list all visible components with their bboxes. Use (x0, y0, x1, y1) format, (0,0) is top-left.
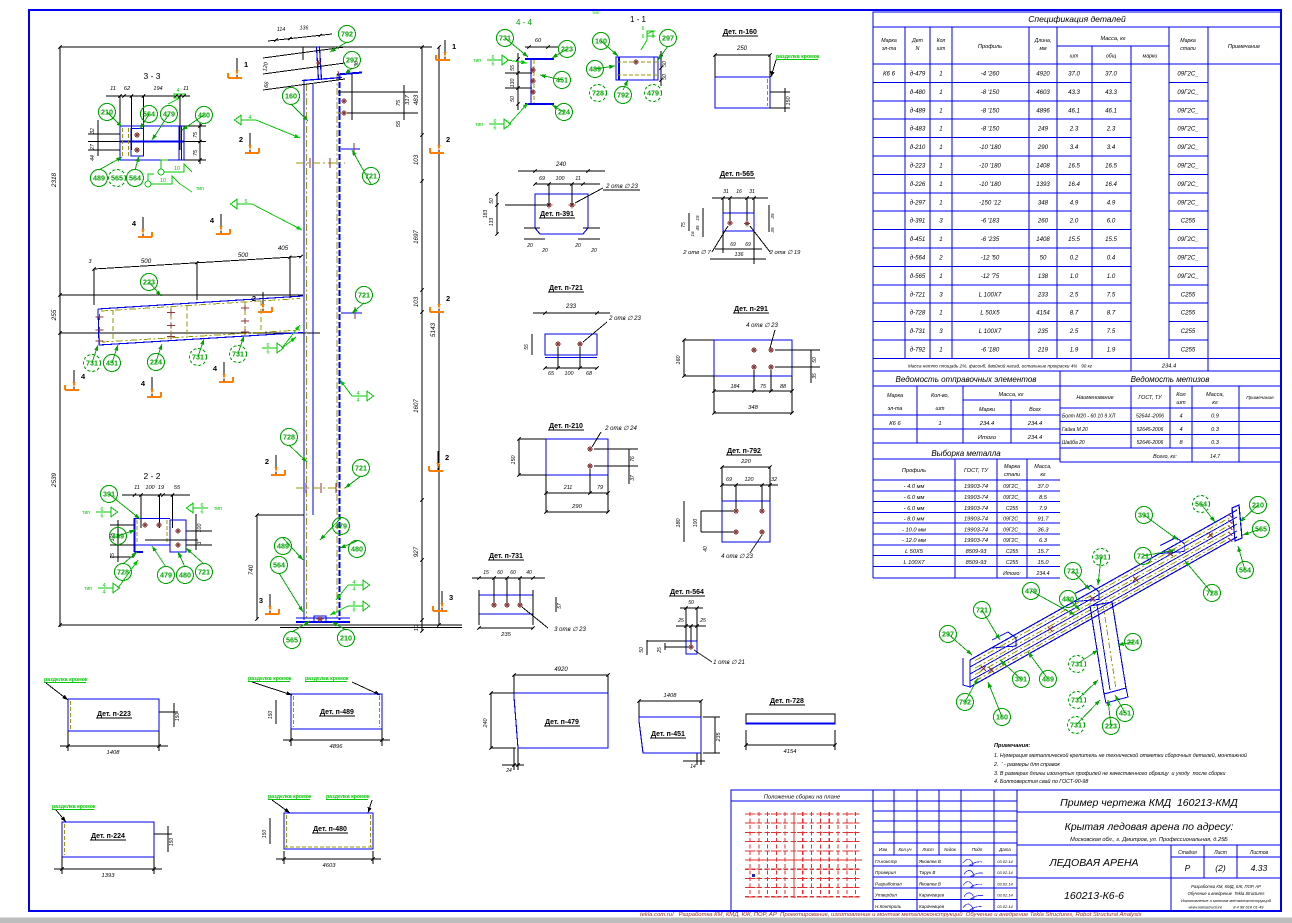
bolt mark (744, 223, 750, 225)
svg-text:731: 731 (1070, 721, 1082, 730)
1-1 dims (660, 51, 662, 86)
svg-text:8.7: 8.7 (1107, 310, 1116, 317)
svg-text:Профиль: Профиль (902, 468, 926, 474)
svg-text:234.4: 234.4 (979, 421, 995, 427)
balloon 489 (275, 538, 292, 555)
svg-text:792: 792 (617, 91, 629, 100)
svg-text:№док: №док (944, 847, 957, 852)
balloon 565 (1253, 521, 1270, 538)
svg-text:1: 1 (939, 71, 942, 78)
svg-text:3: 3 (89, 259, 92, 265)
svg-text:Марка: Марка (1004, 464, 1020, 470)
bolt mark (569, 204, 576, 206)
3-3 outline (120, 126, 184, 160)
balloon 160 (593, 33, 610, 50)
svg-text:4920: 4920 (1036, 71, 1050, 78)
svg-text:792: 792 (959, 698, 971, 707)
svg-text:79: 79 (597, 485, 603, 491)
svg-text:27: 27 (90, 143, 96, 151)
balloon 731 (84, 355, 101, 372)
bolt mark (768, 366, 774, 368)
svg-text:50: 50 (662, 74, 668, 80)
svg-text:8: 8 (353, 608, 356, 614)
svg-text:1408: 1408 (664, 693, 678, 699)
svg-text:тип: тип (82, 510, 90, 516)
weld symbol (98, 587, 113, 589)
svg-text:3 - 3: 3 - 3 (143, 71, 160, 81)
svg-text:75: 75 (760, 384, 767, 390)
svg-text:09Г2С_: 09Г2С_ (1003, 495, 1021, 501)
svg-text:260: 260 (1037, 218, 1049, 225)
391 corner dims (524, 227, 540, 229)
svg-text:160: 160 (285, 92, 297, 101)
svg-text:ЛЕДОВАЯ АРЕНА: ЛЕДОВАЯ АРЕНА (1048, 857, 1138, 869)
svg-text:211: 211 (563, 485, 573, 491)
dim 740 bottom part (256, 515, 258, 619)
top dim lines (268, 34, 332, 41)
balloon 489 (1040, 671, 1057, 688)
svg-text:480: 480 (1062, 595, 1074, 604)
svg-text:223: 223 (1105, 722, 1117, 731)
main view dimension boundary (59, 47, 61, 625)
svg-text:2.0: 2.0 (1069, 218, 1079, 225)
svg-text:4: 4 (103, 583, 106, 589)
balloon 479 (1023, 583, 1040, 600)
svg-text:3. В размерах длины изогнутых: 3. В размерах длины изогнутых профилей н… (994, 770, 1226, 777)
svg-text:Карачевцев: Карачевцев (919, 904, 945, 909)
svg-text:д-297: д-297 (910, 199, 926, 206)
svg-text:С255: С255 (1181, 218, 1196, 225)
svg-text:16.5: 16.5 (1105, 163, 1117, 170)
balloon 480 (1060, 591, 1077, 608)
svg-text:д-565: д-565 (910, 273, 926, 280)
svg-text:Яковлев В: Яковлев В (918, 859, 941, 864)
svg-text:03.02.14: 03.02.14 (997, 870, 1013, 875)
svg-text:Проверил: Проверил (875, 870, 896, 875)
weld symbol (193, 507, 208, 509)
svg-text:8.5: 8.5 (1039, 495, 1048, 501)
svg-text:Всего, кг:: Всего, кг: (1153, 454, 1177, 460)
svg-text:Дет. п-721: Дет. п-721 (549, 285, 583, 292)
svg-text:-10 '180: -10 '180 (979, 163, 1001, 170)
bolt mark (555, 343, 561, 345)
svg-text:19903-74: 19903-74 (964, 517, 988, 523)
svg-text:Дет. п-223: Дет. п-223 (97, 711, 131, 718)
balloon 451 (554, 72, 571, 89)
balloon 224 (148, 354, 165, 371)
svg-text:09Г2С_: 09Г2С_ (1177, 89, 1199, 96)
svg-text:75: 75 (396, 99, 402, 106)
svg-text:1: 1 (939, 199, 942, 206)
svg-text:6: 6 (101, 507, 104, 513)
svg-text:8509-93: 8509-93 (966, 560, 988, 566)
balloon 451 (104, 355, 121, 372)
svg-text:11: 11 (110, 86, 116, 92)
bolt mark (317, 618, 324, 620)
svg-text:09Г2С_: 09Г2С_ (1177, 126, 1199, 133)
svg-text:16: 16 (736, 189, 742, 195)
svg-text:4.9: 4.9 (1070, 199, 1079, 206)
svg-text:75: 75 (193, 149, 199, 156)
svg-text:Яковлев В: Яковлев В (918, 881, 941, 886)
svg-text:4 - 4: 4 - 4 (516, 18, 533, 27)
svg-text:24: 24 (505, 768, 512, 774)
svg-text:4: 4 (249, 115, 252, 121)
svg-text:500: 500 (141, 258, 152, 265)
balloon 160 (994, 709, 1011, 726)
svg-text:60: 60 (510, 570, 516, 576)
3-3 weld flags (145, 160, 192, 192)
svg-text:565: 565 (1255, 525, 1267, 534)
bolt mark (175, 544, 181, 546)
svg-text:45: 45 (695, 225, 700, 231)
svg-text:150: 150 (511, 456, 517, 465)
svg-text:564: 564 (129, 174, 141, 183)
svg-text:480: 480 (198, 111, 210, 120)
svg-text:6: 6 (494, 126, 497, 132)
iso beam axis dashed (975, 517, 1231, 661)
balloon 728 (281, 429, 298, 446)
svg-text:шт: шт (936, 406, 945, 412)
svg-text:Наименование: Наименование (1076, 395, 1113, 401)
balloon 391 (1013, 671, 1030, 688)
svg-text:Н.Контроль: Н.Контроль (875, 904, 902, 909)
svg-text:55: 55 (174, 485, 181, 491)
svg-text:50: 50 (662, 61, 668, 67)
svg-text:233: 233 (565, 304, 577, 310)
svg-text:160: 160 (996, 713, 1008, 722)
svg-text:09Г2С_: 09Г2С_ (1177, 236, 1199, 243)
svg-text:Р: Р (1185, 863, 1191, 873)
svg-text:32: 32 (90, 128, 96, 134)
svg-text:(2): (2) (1215, 863, 1226, 873)
balloon 480 (349, 541, 366, 558)
svg-text:35: 35 (770, 213, 775, 219)
svg-text:2.5: 2.5 (1069, 291, 1079, 298)
svg-text:479: 479 (647, 89, 659, 98)
balloon 728 (590, 85, 607, 102)
svg-text:L 100X7: L 100X7 (979, 291, 1002, 298)
svg-text:150: 150 (175, 713, 181, 722)
svg-text:4 отв ∅ 23: 4 отв ∅ 23 (746, 322, 778, 329)
bolt mark (633, 61, 639, 63)
svg-text:Болт М20 - 60 10 9 ХЛ: Болт М20 - 60 10 9 ХЛ (1062, 414, 1116, 420)
bolt mark (759, 510, 765, 512)
svg-text:-8 '150: -8 '150 (981, 107, 1000, 114)
391 hole callout (575, 188, 603, 203)
svg-text:721: 721 (976, 606, 988, 615)
balloon 731 (190, 349, 207, 366)
svg-text:8509-93: 8509-93 (966, 549, 988, 555)
weld symbol (262, 347, 277, 349)
svg-text:1408: 1408 (107, 750, 121, 756)
svg-text:40: 40 (703, 546, 709, 552)
svg-text:19903-74: 19903-74 (964, 484, 988, 490)
iso beam left end cap (963, 658, 970, 687)
balloon 564 (127, 170, 144, 187)
svg-text:25: 25 (677, 618, 684, 624)
svg-text:Марка: Марка (1180, 38, 1196, 44)
section marker 1 (444, 40, 446, 59)
3-3 right dims (184, 125, 206, 127)
svg-text:шт: шт (937, 46, 946, 52)
balloon 721 (353, 460, 370, 477)
svg-text:Примечание: Примечание (1228, 44, 1260, 50)
svg-text:348: 348 (1038, 199, 1049, 206)
svg-text:1: 1 (939, 310, 942, 317)
svg-text:564: 564 (273, 561, 285, 570)
svg-text:д-391: д-391 (910, 218, 926, 225)
svg-text:4: 4 (1179, 414, 1182, 420)
section marker 4 (142, 217, 144, 236)
svg-text:927: 927 (413, 546, 420, 557)
table: Ведомость отправочных элементов (873, 370, 1281, 372)
svg-text:Карачевцев: Карачевцев (919, 893, 945, 898)
svg-text:31: 31 (749, 189, 755, 195)
svg-text:297: 297 (942, 630, 954, 639)
svg-text:3: 3 (449, 593, 453, 602)
svg-text:2: 2 (446, 135, 450, 144)
svg-text:1408: 1408 (1036, 236, 1050, 243)
svg-text:-4 '260: -4 '260 (981, 71, 1000, 78)
svg-text:728: 728 (283, 433, 295, 442)
svg-text:55: 55 (510, 65, 516, 71)
svg-text:731: 731 (499, 34, 511, 43)
balloon 731 (230, 346, 247, 363)
svg-text:731: 731 (86, 359, 98, 368)
svg-text:721: 721 (365, 172, 377, 181)
title block: Положение сборки на плане (731, 790, 873, 911)
svg-text:09Г2С_: 09Г2С_ (1003, 517, 1021, 523)
svg-text:15: 15 (483, 570, 489, 576)
bolt mark (175, 530, 181, 532)
svg-text:184: 184 (731, 384, 740, 390)
svg-text:10: 10 (160, 178, 166, 184)
svg-text:1: 1 (939, 126, 942, 133)
svg-text:4.9: 4.9 (1107, 199, 1116, 206)
bolt mark (134, 149, 140, 151)
weld symbol (352, 395, 367, 397)
svg-text:-8 '150: -8 '150 (981, 89, 1000, 96)
svg-text:19903-74: 19903-74 (964, 527, 988, 533)
svg-text:52646-2006: 52646-2006 (1137, 440, 1164, 446)
svg-text:1: 1 (452, 42, 456, 51)
balloon 721 (974, 602, 991, 619)
balloon 731 (1069, 656, 1086, 673)
svg-text:общ: общ (1106, 54, 1117, 60)
2-2 dims (110, 524, 134, 526)
bolt mark (768, 349, 774, 351)
svg-text:Изм: Изм (879, 847, 887, 852)
weld symbol (96, 511, 111, 513)
4-4 balloons (505, 38, 528, 57)
balloon 721 (356, 287, 373, 304)
bolt mark (587, 465, 593, 467)
svg-text:4: 4 (357, 398, 360, 404)
balloon 297 (940, 626, 957, 643)
column splice marks (296, 162, 345, 164)
svg-text:1: 1 (939, 273, 942, 280)
svg-text:20: 20 (574, 243, 581, 249)
svg-text:03.02.14: 03.02.14 (997, 904, 1013, 909)
svg-text:2 отв ∅ 24: 2 отв ∅ 24 (604, 425, 637, 432)
1-1 weld flag (641, 31, 655, 50)
svg-text:6: 6 (201, 503, 204, 509)
2-2 balloons (109, 494, 140, 519)
svg-text:43.3: 43.3 (1068, 89, 1080, 96)
svg-text:100: 100 (556, 176, 565, 182)
bolt mark (688, 646, 694, 648)
svg-text:160: 160 (595, 37, 607, 46)
svg-text:7.9: 7.9 (1039, 506, 1048, 512)
svg-text:564: 564 (1239, 566, 1251, 575)
svg-text:д-792: д-792 (910, 347, 926, 354)
svg-text:731: 731 (1071, 660, 1083, 669)
svg-text:224: 224 (1127, 638, 1139, 647)
svg-text:65: 65 (548, 371, 555, 377)
bolt mark (142, 524, 148, 526)
svg-text:25: 25 (699, 618, 706, 624)
svg-text:09Г2С_: 09Г2С_ (1177, 273, 1199, 280)
svg-text:1 - 1: 1 - 1 (630, 15, 647, 24)
svg-text:480: 480 (351, 545, 363, 554)
svg-text:Дет. п-564: Дет. п-564 (670, 589, 704, 596)
svg-text:150: 150 (268, 711, 274, 720)
svg-text:03.02.14: 03.02.14 (997, 859, 1013, 864)
svg-text:391: 391 (103, 490, 115, 499)
svg-text:240: 240 (555, 162, 567, 168)
svg-text:ГОСТ, ТУ: ГОСТ, ТУ (964, 468, 990, 474)
svg-text:103: 103 (413, 154, 420, 165)
svg-text:Выборка металла: Выборка металла (931, 449, 1001, 458)
svg-text:564: 564 (1195, 500, 1207, 509)
svg-text:100: 100 (565, 371, 574, 377)
svg-text:Дет. п-479: Дет. п-479 (545, 719, 579, 726)
svg-text:Утвердил: Утвердил (875, 893, 897, 898)
svg-text:565: 565 (286, 636, 298, 645)
svg-text:721: 721 (1137, 552, 1149, 561)
svg-text:792: 792 (341, 30, 353, 39)
balloon 223 (141, 274, 158, 291)
svg-text:75: 75 (681, 222, 687, 228)
balloon 564 (1193, 496, 1210, 513)
svg-text:451: 451 (106, 359, 118, 368)
svg-text:6: 6 (642, 34, 645, 40)
bolt mark (587, 448, 593, 450)
balloon 480 (177, 567, 194, 584)
svg-text:249: 249 (1037, 126, 1049, 133)
svg-text:09Г2С_: 09Г2С_ (1177, 144, 1199, 151)
svg-text:15: 15 (695, 215, 700, 221)
svg-text:-6 '235: -6 '235 (981, 236, 1000, 243)
svg-text:20: 20 (590, 248, 597, 254)
svg-text:150: 150 (169, 838, 175, 847)
svg-text:297: 297 (662, 34, 674, 43)
svg-text:35: 35 (770, 227, 775, 233)
svg-text:L 100X7: L 100X7 (979, 328, 1002, 335)
svg-text:75: 75 (110, 553, 116, 559)
svg-text:180: 180 (676, 519, 682, 528)
svg-text:2: 2 (445, 453, 449, 462)
svg-text:4896: 4896 (330, 744, 344, 750)
svg-text:479: 479 (1025, 587, 1037, 596)
svg-text:Кол.уч: Кол.уч (898, 847, 912, 852)
svg-text:1607: 1607 (413, 399, 420, 413)
bolt mark (156, 524, 162, 526)
svg-text:1393: 1393 (102, 873, 116, 879)
svg-text:4: 4 (103, 590, 106, 596)
svg-text:09Г2С_: 09Г2С_ (1177, 107, 1199, 114)
svg-text:55: 55 (524, 344, 530, 350)
svg-text:234.4: 234.4 (1027, 421, 1043, 427)
svg-text:стали: стали (1180, 46, 1196, 52)
svg-text:52644 -2006: 52644 -2006 (1136, 414, 1164, 420)
svg-text:-6 '180: -6 '180 (981, 347, 1000, 354)
svg-text:д-728: д-728 (910, 310, 926, 317)
svg-text:68: 68 (586, 371, 592, 377)
svg-text:210: 210 (340, 634, 352, 643)
svg-text:740: 740 (248, 564, 255, 575)
svg-text:03.02.14: 03.02.14 (997, 893, 1013, 898)
svg-text:Всех: Всех (1029, 407, 1041, 413)
svg-text:0.3: 0.3 (1211, 440, 1220, 446)
svg-text:1393: 1393 (1036, 181, 1050, 188)
svg-text:1: 1 (244, 60, 248, 69)
bolt mark (504, 604, 510, 606)
svg-text:37: 37 (630, 475, 636, 481)
svg-text:Крытая ледовая арена по адресу: Крытая ледовая арена по адресу: (1065, 821, 1234, 833)
beam bolts (96, 316, 104, 318)
section marker 4 (73, 370, 75, 389)
svg-text:479: 479 (163, 110, 175, 119)
svg-text:103: 103 (413, 296, 420, 307)
svg-text:1: 1 (939, 107, 942, 114)
svg-text:д-483: д-483 (910, 126, 926, 133)
svg-text:44: 44 (90, 155, 96, 161)
svg-text:130: 130 (510, 79, 516, 88)
svg-text:120: 120 (745, 477, 754, 483)
svg-text:11: 11 (575, 176, 581, 182)
svg-text:728: 728 (1206, 589, 1218, 598)
svg-text:40: 40 (526, 570, 532, 576)
svg-text:4. Болтоверстия свай по ГОСТ-9: 4. Болтоверстия свай по ГОСТ-90-98 (994, 778, 1088, 785)
beam stiffener dashes (112, 310, 114, 342)
svg-text:1408: 1408 (1036, 163, 1050, 170)
svg-text:721: 721 (1067, 567, 1079, 576)
svg-text:489: 489 (93, 174, 105, 183)
svg-text:19903-74: 19903-74 (964, 538, 988, 544)
bolt mark (341, 100, 347, 102)
svg-text:114: 114 (277, 27, 285, 33)
svg-text:С255: С255 (1006, 506, 1018, 512)
bolt mark (341, 112, 347, 114)
svg-text:2.3: 2.3 (1069, 126, 1079, 133)
svg-text:Дет. п-489: Дет. п-489 (320, 709, 354, 716)
upper right gusset dims 317/483 (338, 91, 418, 93)
svg-text:Дет. п-792: Дет. п-792 (727, 448, 761, 455)
weld symbol (489, 123, 504, 125)
svg-text:тип: тип (214, 506, 222, 512)
bolt mark (546, 204, 553, 206)
svg-text:2 отв ∅ 23: 2 отв ∅ 23 (608, 315, 641, 322)
svg-text:- 8.0 мм: - 8.0 мм (904, 517, 925, 523)
svg-text:57: 57 (557, 603, 563, 609)
svg-text:1 отв ∅ 21: 1 отв ∅ 21 (713, 659, 745, 666)
bolt mark (733, 510, 739, 512)
svg-text:Пример чертежа КМД 160213-КМД: Пример чертежа КМД 160213-КМД (1060, 797, 1238, 809)
svg-text:09Г2С_: 09Г2С_ (1003, 538, 1021, 544)
balloon 565 (284, 632, 301, 649)
